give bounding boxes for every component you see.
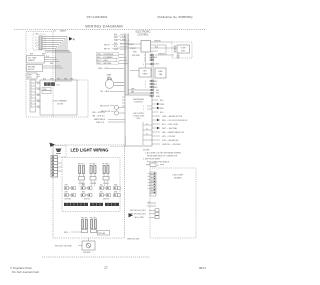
svg-text:MOTOR: MOTOR (28, 69, 35, 71)
ice maker connector J-box (dashed) (33, 34, 45, 50)
freezer LED module 2 (90, 217, 97, 232)
door connector dark label (44, 82, 55, 86)
pin column left labels (131, 55, 140, 94)
LED module FF1 (78, 163, 85, 186)
pair cell dark ticks (65, 187, 115, 196)
svg-text:P1: P1 (151, 173, 153, 175)
svg-text:WHT — NEUTRAL: WHT — NEUTRAL (97, 62, 111, 65)
fresh food compartment dashed corner (110, 136, 126, 147)
svg-text:J2: J2 (148, 202, 150, 204)
pin row 4 (146, 63, 152, 65)
svg-text:2. SEE TECH SHEET: 2. SEE TECH SHEET (143, 159, 161, 161)
door harness connector strip (30, 80, 36, 112)
svg-text:GRN/YEL: GRN/YEL (158, 54, 165, 56)
note arrow 4 (69, 37, 73, 41)
dispenser control title (133, 99, 145, 104)
control pin column (151, 52, 153, 97)
left feed connector strip (51, 156, 58, 178)
freezer door switch (114, 105, 118, 109)
evaporator fan motor (105, 78, 124, 88)
svg-text:BLK: BLK (46, 56, 49, 58)
svg-text:J5: J5 (146, 134, 148, 136)
wires from freezer fan block (43, 66, 64, 68)
svg-text:P2: P2 (151, 176, 153, 178)
dispenser control board box (125, 95, 152, 146)
ice maker connector pin labels (35, 34, 38, 49)
svg-text:P4: P4 (151, 181, 153, 183)
control box left pins (117, 44, 141, 48)
svg-text:GRY — ICE SW: GRY — ICE SW (162, 136, 175, 138)
wires strip to door box (36, 82, 40, 106)
bundle wire tails into door box (56, 80, 72, 82)
water fill tube heater block (27, 56, 45, 64)
LED light board dashed box (150, 168, 196, 238)
ice and water door label (53, 100, 67, 106)
electronic control title (136, 32, 151, 37)
board pin rows (147, 106, 152, 109)
svg-text:N WHT: N WHT (130, 48, 136, 50)
svg-text:TIMER: TIMER (143, 74, 149, 76)
svg-text:PUR — AUGER SW: PUR — AUGER SW (162, 139, 179, 142)
compressor relay terminals (174, 46, 176, 53)
distribution label band (64, 203, 119, 206)
label row under ice maker box (30, 54, 46, 56)
defrost heater label right (0, 0, 1, 1)
board caution text (133, 113, 145, 120)
control box right pin wires (151, 42, 178, 55)
svg-text:J1: J1 (157, 165, 159, 167)
svg-text:P6: P6 (151, 187, 153, 189)
defrost timer box (139, 68, 151, 77)
svg-text:BLK: BLK (122, 36, 125, 38)
pin rows lower cluster (128, 81, 152, 96)
svg-text:ORN: ORN (160, 104, 165, 106)
board right wire rows (152, 100, 160, 144)
connector pair row B (65, 192, 118, 194)
center vertical harness bus (124, 34, 128, 96)
svg-text:FRZ LED 1: FRZ LED 1 (81, 217, 88, 219)
LED board connector strip (150, 172, 156, 196)
svg-text:FF LED 3: FF LED 3 (103, 163, 110, 165)
svg-text:WHT —: WHT — (64, 232, 70, 234)
svg-text:ORN — WTR VLV: ORN — WTR VLV (92, 112, 106, 114)
svg-text:CONN B: CONN B (90, 183, 96, 185)
svg-text:1: 1 (144, 55, 145, 57)
svg-text:BOARD: BOARD (174, 177, 182, 180)
svg-text:FF LED 1: FF LED 1 (78, 163, 85, 165)
LED board lower wire rows (130, 210, 147, 219)
svg-text:P12: P12 (57, 85, 60, 87)
svg-text:WHT: WHT (50, 63, 53, 65)
pointer arrow into LED box (50, 143, 56, 148)
compressor dashed enclosure (172, 42, 192, 58)
door switch labels (100, 105, 110, 113)
ice maker vertical label column (37, 38, 39, 50)
svg-text:P7: P7 (151, 190, 153, 192)
evaporator fan label (107, 74, 112, 80)
svg-text:RED: RED (82, 185, 85, 187)
svg-text:6: 6 (145, 84, 146, 86)
harness label tag outlines (97, 52, 119, 64)
svg-text:MAKER: MAKER (60, 30, 67, 33)
J1 connector row (150, 163, 156, 167)
svg-text:DEF TERM: DEF TERM (132, 55, 140, 57)
door inner connector (42, 88, 51, 91)
connector strip pin stubs (148, 174, 151, 189)
svg-text:COMP: COMP (180, 48, 186, 50)
svg-text:P3: P3 (151, 179, 153, 181)
svg-text:BLU — LIGHT: BLU — LIGHT (97, 60, 108, 62)
svg-text:DISP LED: DISP LED (103, 198, 109, 200)
LED panel inner box (62, 158, 120, 212)
harness label rows left of bus (97, 54, 114, 65)
svg-text:3: 3 (144, 60, 145, 62)
svg-text:DISP LED: DISP LED (84, 198, 90, 200)
svg-text:RED: RED (82, 192, 85, 194)
svg-text:WHT: WHT (42, 54, 46, 56)
svg-text:FRZ DR SW: FRZ DR SW (100, 105, 109, 107)
pin cell boxes on column (151, 54, 154, 97)
defrost heater block (27, 73, 37, 79)
svg-text:WIRING DIAGRAM: WIRING DIAGRAM (85, 24, 122, 29)
freezer LED module 1 (81, 217, 88, 232)
svg-text:J3: J3 (146, 124, 148, 126)
svg-text:BLU — DISP LIGHT: BLU — DISP LIGHT (162, 124, 179, 126)
wires from fill tube heater (45, 58, 60, 62)
right pointer arrow (129, 213, 134, 217)
pin rows top cluster (149, 55, 152, 60)
page bottom dotted border (42, 256, 150, 258)
svg-text:2: 2 (143, 109, 144, 111)
svg-text:L1 BLK: L1 BLK (128, 44, 134, 46)
svg-text:BLU: BLU (100, 185, 103, 187)
electronic control box (141, 41, 151, 53)
svg-text:4: 4 (143, 64, 144, 66)
svg-text:WHT: WHT (114, 37, 118, 39)
svg-text:P8: P8 (151, 192, 153, 194)
ice maker connector pin strip (39, 36, 42, 50)
svg-text:FRZ LED GROUND: FRZ LED GROUND (55, 246, 72, 248)
svg-text:RED — ICE DOOR SOLENOID: RED — ICE DOOR SOLENOID (162, 120, 188, 122)
freezer LED label box (98, 231, 110, 236)
svg-text:FRZ DR LED (-) BLU: FRZ DR LED (-) BLU (130, 210, 147, 212)
svg-text:J4: J4 (146, 129, 148, 131)
compressor ground (176, 53, 180, 58)
thermistor rows (104, 44, 111, 50)
svg-text:P5: P5 (151, 184, 153, 186)
svg-text:LED (+) RED: LED (+) RED (134, 217, 145, 219)
svg-text:1: 1 (143, 106, 144, 108)
feed wires to inner panel (58, 163, 63, 171)
svg-text:BLU: BLU (100, 192, 103, 194)
bus top labels (114, 34, 118, 51)
ground screw symbol (86, 243, 91, 248)
svg-text:P/N 241815901: P/N 241815901 (87, 15, 108, 19)
svg-text:Pro-Tech dual web Field: Pro-Tech dual web Field (12, 271, 39, 274)
svg-text:GRN/YEL: GRN/YEL (154, 41, 161, 43)
svg-text:27: 27 (104, 266, 108, 270)
svg-text:ORN — AUGER MOTOR: ORN — AUGER MOTOR (162, 115, 183, 118)
svg-text:YEL — AUX: YEL — AUX (100, 90, 110, 93)
svg-text:DISP LED: DISP LED (65, 198, 71, 200)
freezer fan block (27, 65, 43, 72)
svg-text:CONN C: CONN C (103, 183, 110, 185)
svg-text:WHT — NEUTRAL: WHT — NEUTRAL (162, 127, 177, 130)
svg-text:2: 2 (144, 57, 145, 59)
svg-text:CONDUCTORS: CONDUCTORS (133, 116, 144, 118)
svg-text:FROM WIRE SIDE OF CONNECTOR: FROM WIRE SIDE OF CONNECTOR (147, 156, 178, 158)
svg-text:1. ALL WIRE COLORS SHOWN AS VI: 1. ALL WIRE COLORS SHOWN AS VIEWED (145, 152, 182, 155)
lamp symbol (56, 149, 62, 153)
LED light board label (173, 175, 184, 180)
svg-text:7: 7 (145, 87, 146, 89)
page top dotted border (14, 29, 205, 31)
water valve coil labels (92, 112, 106, 124)
svg-text:FRZ LED 2: FRZ LED 2 (90, 217, 97, 219)
svg-text:GRN/YEL GND: GRN/YEL GND (127, 238, 140, 240)
board right wire labels (160, 100, 188, 146)
connector strip dark ticks (154, 173, 156, 193)
connector pair row A (65, 185, 118, 187)
svg-text:RED — ICE MAKER: RED — ICE MAKER (97, 56, 113, 59)
svg-text:FF LED 2: FF LED 2 (90, 163, 97, 165)
evap fan component box right (155, 68, 166, 78)
pin cell dark ticks (151, 54, 152, 96)
svg-text:© Frigidaire Parts: © Frigidaire Parts (10, 266, 32, 270)
svg-text:ELECTRONIC: ELECTRONIC (136, 32, 151, 34)
svg-text:WHT: WHT (65, 192, 68, 194)
refrigerator door switch (114, 111, 118, 115)
svg-text:WHT: WHT (65, 185, 68, 187)
svg-text:5: 5 (145, 81, 146, 83)
notes block (143, 150, 182, 164)
svg-text:CONTROL: CONTROL (137, 35, 149, 37)
LED module FF3 (103, 163, 110, 186)
svg-text:FRZ LED: FRZ LED (99, 233, 106, 235)
board left pins (122, 97, 125, 106)
wire bundle from ice maker connector (42, 37, 71, 81)
wire from LED box to ground (88, 238, 90, 241)
board inner pin line (142, 122, 144, 145)
row B bottom labels (65, 198, 110, 200)
svg-text:ORN — DISPENSER: ORN — DISPENSER (97, 54, 114, 56)
svg-text:08/14: 08/14 (199, 266, 206, 270)
svg-text:ICE & WATER: ICE & WATER (53, 100, 67, 103)
svg-text:DEF: DEF (143, 71, 146, 73)
LED module FF2 (90, 163, 97, 186)
svg-text:LED LIGHT: LED LIGHT (173, 175, 184, 177)
svg-text:GRN: GRN (114, 192, 117, 194)
control box upper-left labels (128, 40, 137, 54)
lamp symbol cell (53, 146, 66, 158)
svg-text:GROUND: GROUND (83, 252, 91, 254)
freezer door compartment dashed enclosure (26, 32, 88, 118)
J2 rows (147, 203, 156, 206)
lower-left harness labels (100, 90, 110, 93)
svg-text:REF TH: REF TH (104, 48, 111, 50)
svg-text:CONTROL: CONTROL (134, 102, 143, 104)
svg-text:NOTES:: NOTES: (143, 150, 150, 152)
compressor motor box (177, 45, 190, 53)
svg-text:WHT: WHT (122, 40, 125, 42)
svg-text:DISP: DISP (43, 89, 47, 91)
note marker arrows on rows (157, 103, 160, 129)
ground screw box (82, 241, 95, 250)
svg-text:GRN: GRN (114, 185, 117, 187)
LED LIGHT WIRING outer dashed box (53, 145, 125, 238)
svg-text:K: K (37, 48, 38, 50)
connector strip pin labels (151, 173, 153, 194)
svg-text:GRN — GND: GRN — GND (98, 68, 109, 70)
door harness labels above box (43, 79, 73, 81)
ice and water door box (40, 80, 77, 115)
svg-text:LED LIGHT WIRING: LED LIGHT WIRING (71, 148, 109, 153)
svg-text:E: E (37, 43, 38, 45)
bus-to-control labels (122, 36, 125, 42)
svg-text:Publication No. 5995545Q: Publication No. 5995545Q (157, 15, 193, 19)
svg-text:WHT: WHT (154, 87, 158, 89)
svg-text:DEF: DEF (156, 90, 159, 92)
ground wire (78, 245, 82, 247)
svg-text:DOOR: DOOR (57, 104, 64, 106)
svg-text:HEATER: HEATER (28, 59, 35, 62)
svg-text:FRZ TH: FRZ TH (104, 44, 110, 46)
svg-text:USE COPPER: USE COPPER (133, 113, 144, 115)
svg-text:GRN/YEL — GROUND: GRN/YEL — GROUND (162, 144, 181, 146)
svg-text:C: C (37, 40, 38, 42)
labels above wire bundle (53, 30, 67, 33)
wires from defrost heater block (37, 75, 40, 77)
connector strip pin labels (37, 83, 41, 109)
svg-text:TAN — WATER VALVE SOL: TAN — WATER VALVE SOL (162, 131, 185, 134)
